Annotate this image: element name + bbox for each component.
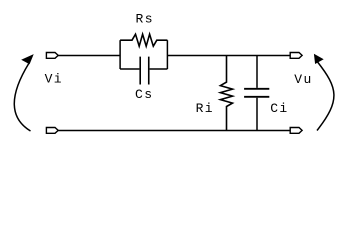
svg-text:Cs: Cs — [135, 87, 153, 102]
svg-text:Ci: Ci — [270, 101, 288, 116]
svg-text:Ri: Ri — [196, 101, 214, 116]
svg-text:Vu: Vu — [294, 72, 312, 87]
svg-text:Vi: Vi — [45, 72, 63, 87]
svg-text:Rs: Rs — [136, 12, 154, 27]
